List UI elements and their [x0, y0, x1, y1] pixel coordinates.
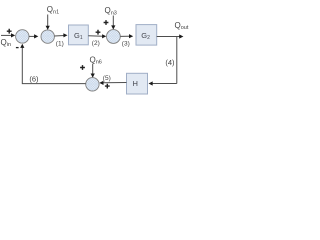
summing junction S2 [41, 30, 54, 43]
plus sign at S3 vertical input [104, 20, 109, 25]
svg-text:(5): (5) [103, 75, 111, 82]
plus sign at S4 right input [105, 84, 110, 89]
minus sign at S1 feedback input [16, 47, 19, 49]
wire S1 to S2 [29, 34, 38, 38]
svg-text:Qout: Qout [175, 21, 189, 31]
wire Qn3 down into S3 [111, 16, 115, 30]
wire branch to H [149, 81, 177, 85]
svg-text:H: H [132, 79, 137, 88]
wire H to S4 [99, 81, 126, 85]
block H [127, 73, 148, 94]
svg-text:(6): (6) [29, 74, 39, 83]
wire S2 to G1 [54, 33, 67, 37]
svg-text:Qin: Qin [1, 38, 12, 48]
plus sign at S4 top input [80, 65, 85, 70]
wire G2 to output [157, 34, 184, 38]
svg-text:(1): (1) [56, 41, 64, 48]
wire branch down from output node [176, 37, 178, 84]
svg-text:(2): (2) [92, 40, 100, 47]
wire G1 to S3 [88, 34, 106, 38]
wire Qn6 down into S4 [91, 64, 95, 78]
svg-text:(3): (3) [122, 41, 130, 48]
summing junction S3 [107, 30, 121, 44]
svg-text:(4): (4) [165, 58, 175, 67]
wire S3 to G2 [120, 34, 133, 38]
summing junction S1 [16, 30, 29, 43]
plus sign at S1 input [7, 29, 12, 34]
wire input arrow into S1 [1, 33, 15, 37]
wire Qn1 down into S2 [46, 15, 50, 30]
plus sign at S3 horizontal input [96, 30, 101, 35]
svg-text:Qn1: Qn1 [47, 5, 59, 15]
svg-text:Qn6: Qn6 [90, 55, 102, 65]
wire S4 feedback to S1 [20, 44, 86, 84]
svg-text:Qn3: Qn3 [105, 6, 117, 16]
block G1 [69, 25, 89, 45]
summing junction S4 [86, 78, 99, 91]
block G2 [136, 25, 157, 45]
